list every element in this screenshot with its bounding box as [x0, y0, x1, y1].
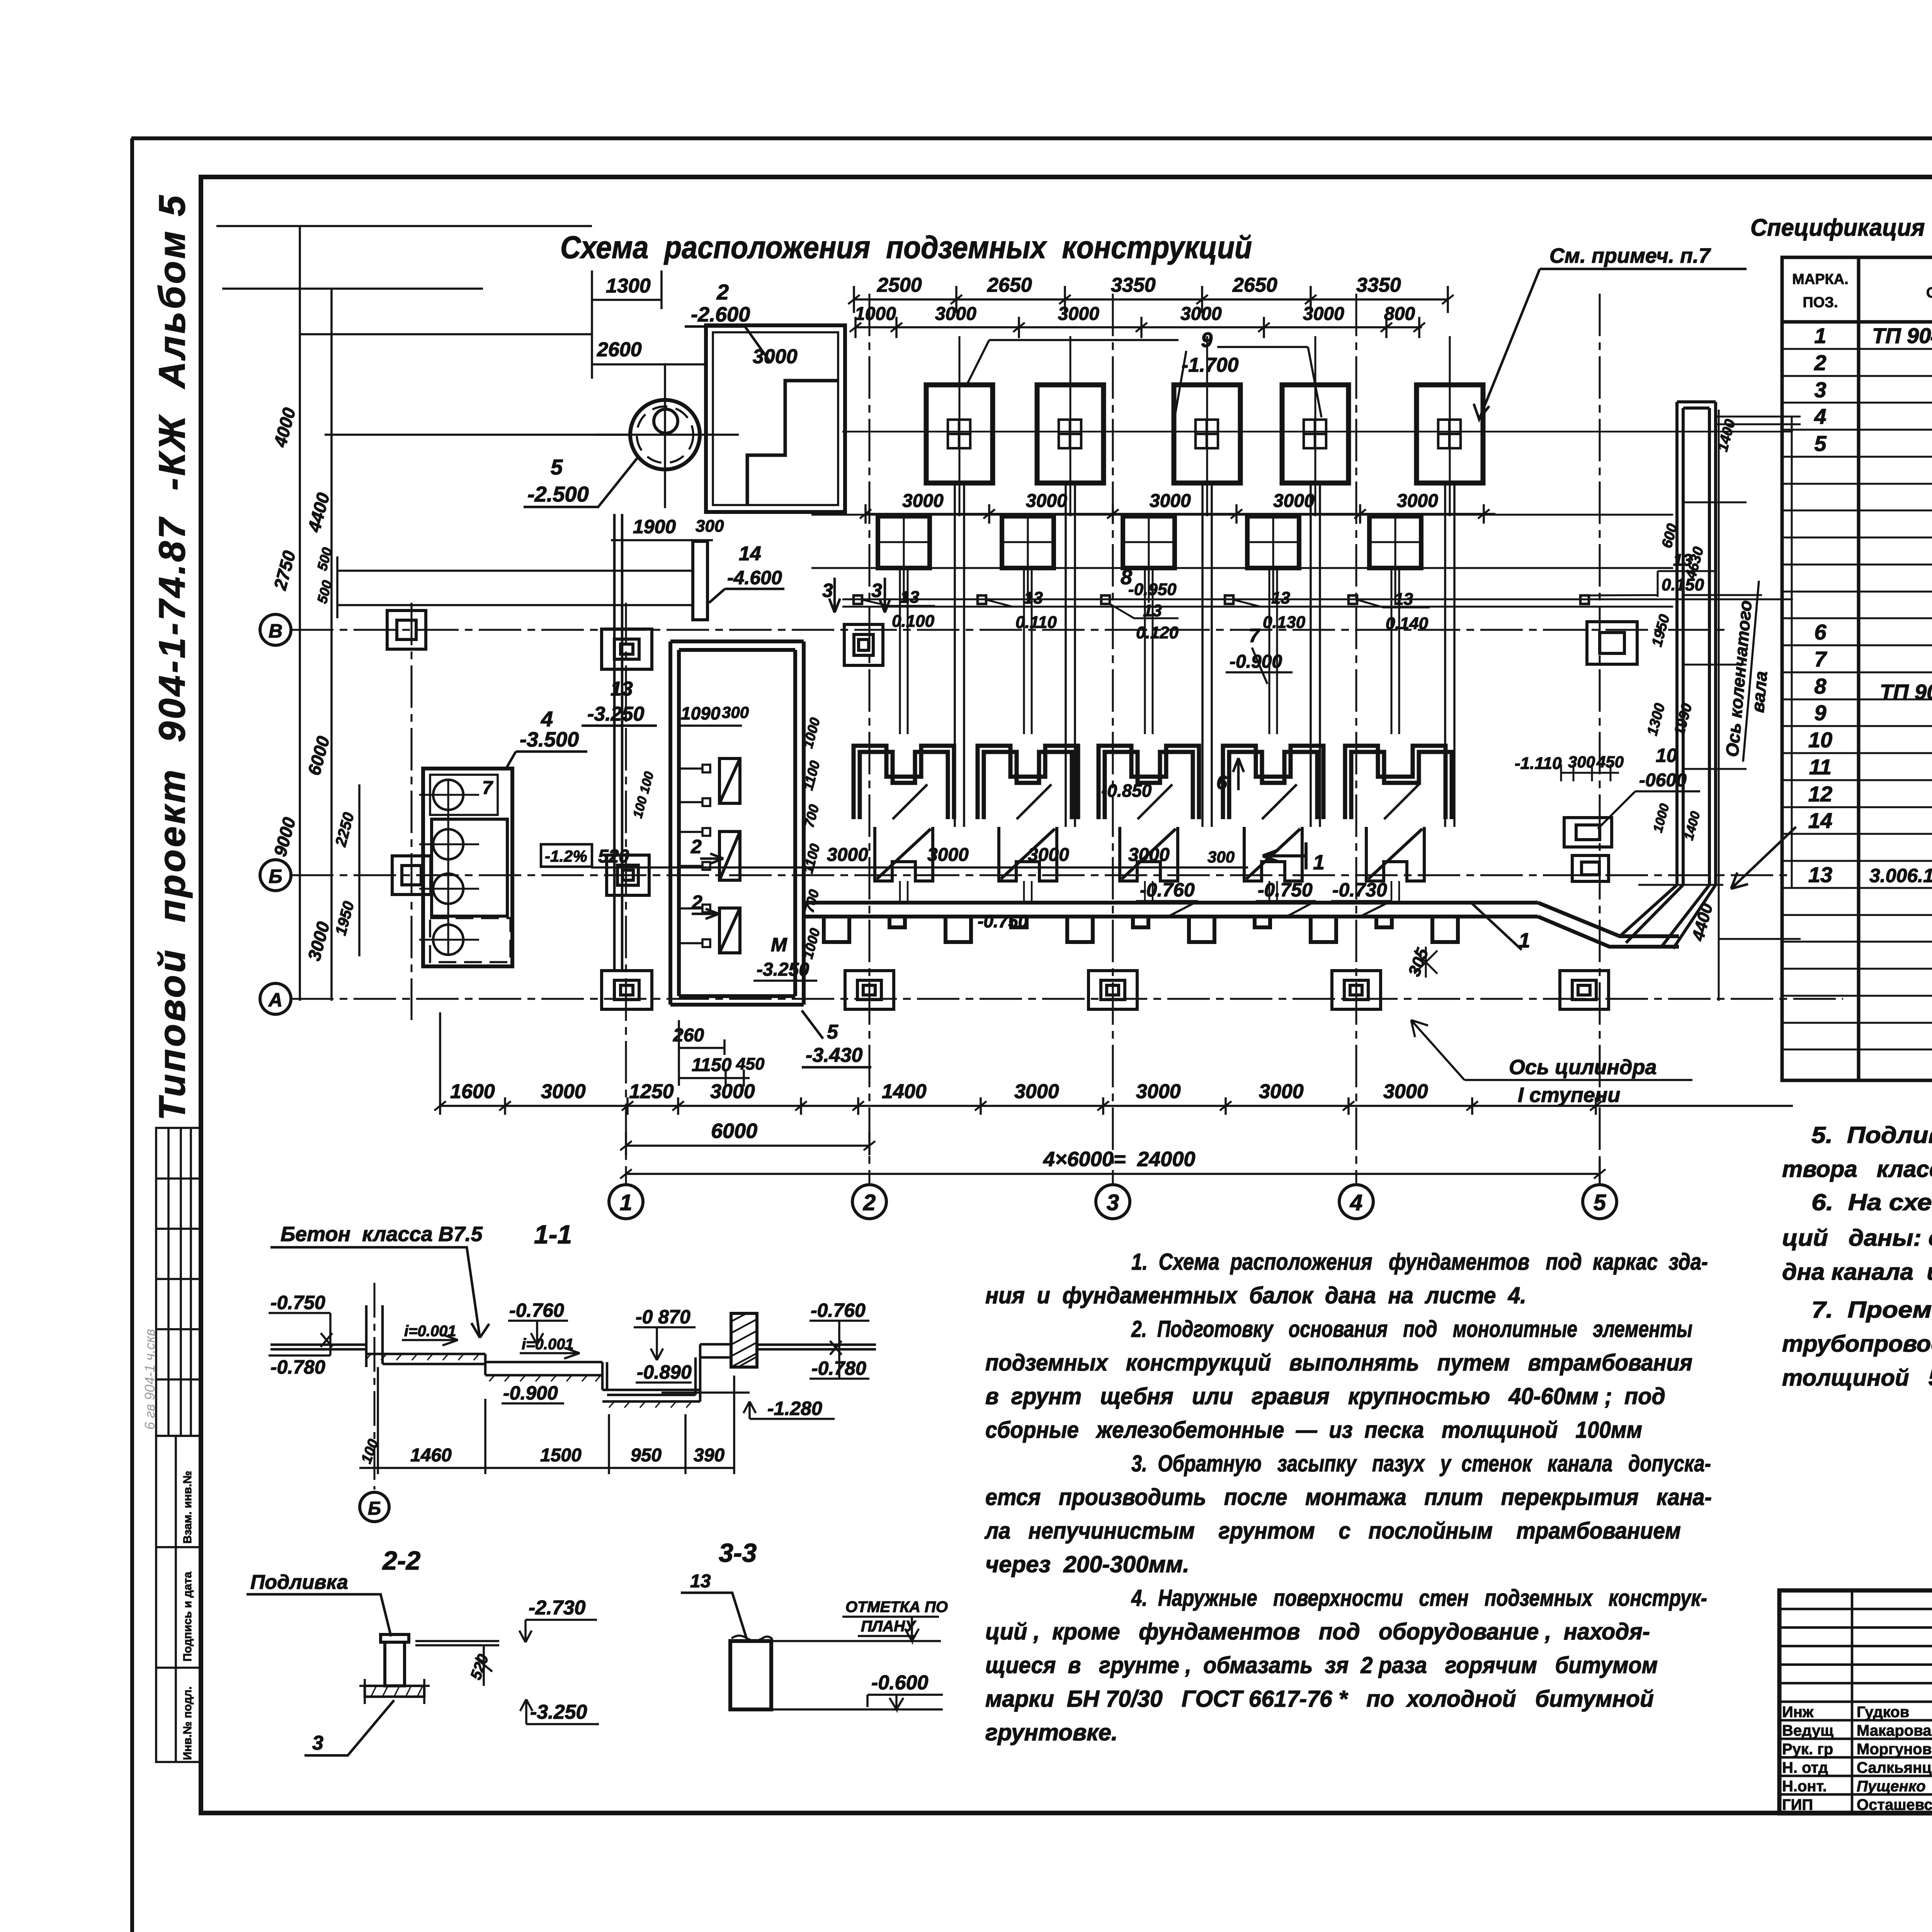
SECTION 2-2 — [247, 1546, 599, 1755]
SECTION 3-3 — [681, 1538, 948, 1709]
svg-text:-0.850: -0.850 — [1101, 781, 1152, 801]
row axis lines А Б В — [291, 603, 1843, 1020]
base plate hatched — [359, 1679, 430, 1704]
svg-text:5. Подливку выполнить из ц: 5. Подливку выполнить из цементнопесчано… — [1811, 1122, 1932, 1148]
section marks 2-2 — [690, 836, 723, 919]
svg-text:13: 13 — [1024, 588, 1043, 607]
svg-text:-0600: -0600 — [1639, 770, 1687, 791]
axis krank shaft label — [1721, 579, 1779, 764]
svg-text:300: 300 — [696, 517, 724, 536]
svg-text:ТП 904-1- -КЖ лист 8: ТП 904-1- -КЖ лист 8 — [1872, 323, 1932, 348]
svg-text:-3.250: -3.250 — [530, 1701, 587, 1723]
svg-text:3000: 3000 — [1397, 491, 1438, 511]
svg-text:4. Наружные поверхности с: 4. Наружные поверхности стен подземных к… — [1131, 1585, 1707, 1611]
top dim chain 2500/2650/3350/2650/3350 — [854, 286, 1448, 313]
PLAN — [216, 226, 1843, 1219]
kolodets K1 well — [595, 363, 739, 508]
machine foundation units — [854, 746, 1452, 819]
svg-text:в грунт щебня или грави: в грунт щебня или гравия крупностью 40-6… — [985, 1383, 1665, 1409]
svg-text:Б: Б — [368, 1498, 381, 1519]
svg-text:3.006.1-2/82 Вып.1-2: 3.006.1-2/82 Вып.1-2 — [1869, 865, 1932, 886]
svg-text:2: 2 — [863, 1190, 876, 1215]
canal KN1 main rectangle — [670, 641, 804, 1005]
top-left dims 1300 / 2600 — [325, 270, 707, 435]
svg-text:ций даны: отметки верха о: ций даны: отметки верха опорных подушек,… — [1782, 1225, 1932, 1251]
svg-text:3000: 3000 — [1303, 304, 1344, 324]
svg-text:1: 1 — [1519, 929, 1530, 952]
svg-text:3000: 3000 — [1058, 304, 1099, 324]
svg-text:-1.110: -1.110 — [1515, 754, 1562, 773]
svg-text:Моргунов: Моргунов — [1857, 1741, 1932, 1758]
small markers in canal — [679, 765, 710, 947]
label 9 / -1.700 — [966, 328, 1321, 417]
svg-text:2650: 2650 — [987, 274, 1032, 296]
five top foundation rectangles — [926, 385, 1483, 483]
svg-text:Рук. гр: Рук. гр — [1782, 1741, 1833, 1758]
arrow 6 — [1216, 758, 1244, 793]
svg-text:6: 6 — [1814, 620, 1827, 644]
svg-text:сборные железобетонные — и: сборные железобетонные — из песка толщин… — [985, 1417, 1642, 1443]
TITLE BLOCK — [1779, 1590, 1932, 1816]
svg-text:9: 9 — [1814, 701, 1826, 725]
svg-text:ОТМЕТКА ПО: ОТМЕТКА ПО — [845, 1599, 948, 1616]
svg-text:3000: 3000 — [1259, 1080, 1304, 1103]
pier 14 — [693, 541, 707, 620]
svg-text:Схема расположения подземных: Схема расположения подземных конструкций — [560, 230, 1252, 265]
footings on line В — [387, 611, 1637, 669]
axis bubbles В Б А — [260, 614, 291, 1014]
svg-text:грунтовке.: грунтовке. — [985, 1719, 1118, 1745]
pryamok PRm1 pit — [706, 325, 845, 512]
footings on line Б — [392, 855, 649, 895]
svg-text:Макарова: Макарова — [1857, 1722, 1932, 1739]
rotated dims right side — [1644, 418, 1738, 943]
svg-text:-2.600: -2.600 — [691, 303, 750, 326]
svg-text:-0.950: -0.950 — [1128, 580, 1177, 599]
svg-text:-0.760: -0.760 — [509, 1299, 564, 1321]
svg-text:3000: 3000 — [1180, 304, 1222, 324]
svg-text:5: 5 — [827, 1021, 838, 1043]
svg-text:1300: 1300 — [606, 275, 651, 297]
svg-text:3000: 3000 — [1014, 1080, 1059, 1103]
svg-text:1250: 1250 — [629, 1080, 674, 1103]
svg-text:7: 7 — [482, 778, 493, 798]
svg-text:3: 3 — [1814, 378, 1826, 402]
hatch ticks under slabs — [366, 1354, 692, 1408]
svg-text:ла непучинистым грунтом: ла непучинистым грунтом с послойным трам… — [984, 1518, 1681, 1544]
svg-text:7. Проем в фундаментах ФО: 7. Проем в фундаментах ФОм 4 после прокл… — [1811, 1297, 1932, 1323]
svg-text:1: 1 — [1313, 851, 1325, 874]
svg-text:1500: 1500 — [540, 1445, 582, 1466]
canal column 1 walls — [614, 514, 622, 970]
svg-text:Н. отд: Н. отд — [1782, 1759, 1828, 1776]
svg-text:950: 950 — [631, 1445, 662, 1466]
svg-text:3350: 3350 — [1111, 274, 1156, 296]
svg-text:Типовой проект 904-1-74.87: Типовой проект 904-1-74.87 -КЖ Альбом 5 — [151, 193, 193, 1121]
svg-text:Инж: Инж — [1782, 1704, 1814, 1721]
svg-text:4: 4 — [1350, 1190, 1362, 1215]
svg-text:13: 13 — [690, 1571, 711, 1592]
svg-text:0.100: 0.100 — [892, 612, 935, 631]
svg-text:Гудков: Гудков — [1857, 1704, 1909, 1721]
svg-text:3. Обратную засыпку пазух: 3. Обратную засыпку пазух у стенок канал… — [1131, 1451, 1711, 1476]
elevation labels above strip — [978, 781, 1387, 931]
svg-text:трубопроводов закрыть по м: трубопроводов закрыть по месту рифленой … — [1782, 1331, 1932, 1357]
svg-text:I ступени: I ступени — [1518, 1083, 1620, 1107]
svg-text:6. На схеме расположения по: 6. На схеме расположения подземных конст… — [1811, 1189, 1932, 1215]
svg-text:подземных конструкций выпо: подземных конструкций выполнять путем вт… — [985, 1350, 1692, 1376]
svg-text:3000: 3000 — [710, 1080, 755, 1103]
OP1 labels 13/0.1xx — [892, 551, 1704, 642]
svg-text:i=0.001: i=0.001 — [522, 1336, 574, 1353]
upper stamp grid — [156, 1128, 201, 1436]
label M / -3.250 — [753, 934, 817, 981]
slope box -1.2% 520 — [541, 844, 629, 867]
svg-text:щиеся в грунте , обмазать: щиеся в грунте , обмазать зя 2 раза горя… — [985, 1652, 1658, 1678]
svg-text:-0.780: -0.780 — [270, 1356, 325, 1378]
long horizontals through plan — [811, 515, 1793, 607]
svg-text:5: 5 — [1814, 431, 1827, 456]
svg-text:3350: 3350 — [1356, 274, 1401, 296]
svg-text:1. Схема расположения фунд: 1. Схема расположения фундаментов под ка… — [1131, 1249, 1708, 1275]
outer border left — [130, 138, 134, 1932]
svg-text:-3.430: -3.430 — [806, 1044, 863, 1066]
column axis lines 1-5 — [626, 294, 1600, 1184]
svg-text:800: 800 — [1384, 304, 1415, 324]
dimension line — [359, 1367, 734, 1474]
svg-text:3000: 3000 — [1028, 845, 1069, 865]
svg-text:-0.760: -0.760 — [811, 1299, 866, 1321]
hatched pier — [731, 1313, 757, 1367]
6000 dim — [626, 1132, 869, 1155]
svg-text:-4.600: -4.600 — [727, 567, 782, 588]
label 1 with leader — [1471, 903, 1530, 952]
svg-text:2500: 2500 — [877, 274, 922, 296]
cylinder axis label — [1411, 1020, 1692, 1107]
svg-text:8: 8 — [1814, 674, 1827, 698]
svg-text:А: А — [268, 989, 282, 1011]
svg-text:-1.2%: -1.2% — [545, 847, 587, 865]
svg-text:2: 2 — [691, 891, 702, 913]
label 2 / -2.600 — [685, 280, 770, 361]
svg-text:2: 2 — [1814, 350, 1826, 375]
hatched inner rects — [719, 759, 740, 953]
svg-text:Салкьянц: Салкьянц — [1857, 1759, 1932, 1776]
svg-text:-0.900: -0.900 — [503, 1382, 558, 1404]
inner frame — [201, 177, 1932, 1813]
second dim chain 1000/3000x4/800 — [855, 317, 1422, 338]
svg-text:3000: 3000 — [1136, 1080, 1181, 1103]
outer border top — [131, 136, 1932, 140]
OP1 support pads — [854, 595, 1589, 604]
svg-text:1900: 1900 — [633, 516, 676, 537]
svg-text:4: 4 — [541, 707, 553, 731]
svg-text:ОБОЗНАЧЕНИЕ: ОБОЗНАЧЕНИЕ — [1926, 285, 1932, 301]
dim 1090 300 — [679, 724, 742, 727]
svg-text:3000: 3000 — [1150, 491, 1191, 511]
label 5 / -3.430 — [802, 1010, 871, 1067]
rotated dim chain right of canal — [630, 716, 823, 961]
svg-text:3000: 3000 — [927, 845, 969, 865]
left dimension lines — [216, 226, 592, 1001]
svg-text:13: 13 — [1808, 862, 1832, 887]
svg-text:260: 260 — [673, 1025, 704, 1046]
svg-text:-2.500: -2.500 — [527, 482, 589, 506]
svg-text:7: 7 — [1814, 647, 1827, 671]
svg-text:3000: 3000 — [1026, 491, 1067, 511]
center axis verticals through top rectangles — [878, 336, 1450, 603]
lower stamp grid — [156, 1436, 201, 1762]
svg-text:-3.500: -3.500 — [520, 728, 579, 751]
svg-text:3: 3 — [312, 1732, 323, 1754]
svg-text:М: М — [771, 934, 787, 956]
svg-text:13: 13 — [611, 678, 633, 700]
svg-text:2650: 2650 — [1232, 274, 1277, 296]
svg-text:-0.750: -0.750 — [978, 911, 1028, 931]
svg-text:6: 6 — [1216, 772, 1228, 793]
svg-text:1000: 1000 — [855, 304, 896, 324]
svg-text:2. Подготовку основания п: 2. Подготовку основания под монолитные э… — [1131, 1316, 1692, 1342]
svg-text:2600: 2600 — [597, 338, 642, 361]
24000 dim — [626, 1159, 1600, 1184]
svg-text:-0 870: -0 870 — [636, 1306, 690, 1328]
svg-text:В: В — [269, 620, 282, 642]
RIGHT NOTES 5-7 — [1782, 1122, 1932, 1391]
rezervuar REm1 — [419, 769, 512, 966]
svg-text:Ведущ: Ведущ — [1782, 1722, 1833, 1739]
svg-text:13: 13 — [1394, 590, 1413, 609]
svg-text:марки БН 70/30 ГОСТ 6617-76: марки БН 70/30 ГОСТ 6617-76 * по холодно… — [985, 1686, 1654, 1712]
label 7 / -0.900 — [1226, 625, 1293, 684]
svg-text:-3.250: -3.250 — [757, 959, 809, 980]
svg-text:Спецификация к схеме распол: Спецификация к схеме расположения подзем… — [1750, 214, 1932, 241]
svg-text:ния и фундаментных балок д: ния и фундаментных балок дана на листе 4… — [985, 1282, 1526, 1308]
see note 7 label — [1474, 244, 1747, 419]
SPEC TABLE — [1782, 257, 1932, 1080]
svg-text:Подливка: Подливка — [250, 1571, 348, 1594]
section mark 1 arrow — [1263, 842, 1325, 874]
svg-text:0.120: 0.120 — [1136, 623, 1179, 642]
svg-text:14: 14 — [1808, 808, 1832, 833]
svg-text:Пущенко: Пущенко — [1857, 1778, 1926, 1795]
svg-text:Подпись и дата: Подпись и дата — [181, 1571, 194, 1662]
svg-text:3: 3 — [1107, 1190, 1119, 1215]
svg-text:3000: 3000 — [902, 491, 944, 511]
elevation flags — [270, 1292, 866, 1419]
svg-text:450: 450 — [736, 1054, 765, 1073]
svg-text:3000: 3000 — [541, 1080, 586, 1103]
svg-text:6 гв 904-1 ч.скв: 6 гв 904-1 ч.скв — [142, 1329, 158, 1430]
svg-text:ций , кроме фундаментов п: ций , кроме фундаментов под оборудование… — [985, 1619, 1650, 1645]
SECTION 1-1 — [269, 1220, 876, 1522]
svg-text:3000: 3000 — [935, 304, 976, 324]
bottom dim chain — [440, 1012, 1793, 1115]
svg-text:8: 8 — [1121, 566, 1132, 589]
svg-text:3000: 3000 — [1128, 845, 1170, 865]
svg-text:2: 2 — [716, 280, 729, 304]
svg-text:7: 7 — [1249, 625, 1260, 646]
svg-text:-0.600: -0.600 — [871, 1672, 929, 1694]
svg-text:-0.730: -0.730 — [1332, 879, 1387, 901]
toothed strip — [804, 903, 1679, 947]
svg-text:300: 300 — [1207, 848, 1235, 866]
svg-text:12: 12 — [1808, 782, 1832, 806]
MIDDLE NOTES 1-4 — [984, 1249, 1712, 1745]
svg-text:3: 3 — [822, 580, 833, 601]
svg-text:13: 13 — [1271, 588, 1290, 607]
svg-text:1460: 1460 — [410, 1445, 452, 1466]
pier — [381, 1634, 409, 1686]
svg-text:-2.730: -2.730 — [529, 1597, 586, 1619]
svg-text:14: 14 — [739, 543, 761, 565]
svg-text:3000: 3000 — [1383, 1080, 1428, 1103]
svg-text:11: 11 — [1809, 755, 1832, 779]
svg-text:13: 13 — [900, 588, 919, 607]
svg-text:ТП 904-1- -КЖ: ТП 904-1- -КЖ — [1880, 680, 1932, 704]
vertical dim 520 — [475, 1645, 492, 1686]
svg-text:ГИП: ГИП — [1782, 1796, 1813, 1813]
svg-text:-1.280: -1.280 — [767, 1398, 822, 1419]
svg-text:через 200-300мм.: через 200-300мм. — [985, 1551, 1189, 1577]
svg-text:Бетон класса В7.5: Бетон класса В7.5 — [281, 1223, 483, 1246]
footings on line А — [602, 971, 1609, 1009]
right channel — [1620, 402, 1716, 949]
svg-text:3000: 3000 — [827, 845, 868, 865]
svg-text:0.110: 0.110 — [1015, 613, 1057, 632]
mid 3000 dim row — [866, 504, 1495, 524]
svg-text:дна канала и отметки низа: дна канала и отметки низа остальных элем… — [1782, 1259, 1932, 1285]
svg-text:4×6000= 24000: 4×6000= 24000 — [1043, 1148, 1195, 1171]
svg-text:-0.760: -0.760 — [1140, 879, 1195, 901]
svg-text:-3.250: -3.250 — [587, 703, 645, 725]
svg-text:4: 4 — [1814, 404, 1826, 429]
svg-text:МАРКА.: МАРКА. — [1792, 271, 1849, 287]
svg-text:0.140: 0.140 — [1386, 614, 1429, 633]
floor lines — [415, 1641, 499, 1645]
block — [730, 1641, 771, 1709]
svg-text:10: 10 — [1656, 745, 1677, 766]
svg-text:ется производить после м: ется производить после монтажа плит пере… — [985, 1484, 1712, 1510]
svg-text:См. примеч. п.7: См. примеч. п.7 — [1549, 244, 1711, 267]
label 4 / -3.500 — [505, 707, 587, 770]
label 10 / -0.600 with footing — [1564, 745, 1700, 881]
svg-text:300: 300 — [722, 703, 749, 721]
svg-text:-0.890: -0.890 — [637, 1361, 692, 1383]
svg-text:1: 1 — [620, 1190, 632, 1215]
svg-text:-0.750: -0.750 — [1258, 879, 1313, 901]
section marks 3-3 — [822, 578, 890, 612]
axis bubbles 1-5 — [609, 1185, 1617, 1219]
svg-text:6000: 6000 — [711, 1119, 757, 1143]
svg-text:Н.онт.: Н.онт. — [1782, 1778, 1827, 1795]
svg-text:1-1: 1-1 — [534, 1220, 572, 1249]
svg-text:1: 1 — [1814, 323, 1826, 348]
svg-text:твора класса В15.: твора класса В15. — [1782, 1156, 1932, 1182]
middle row squares — [878, 516, 1421, 568]
svg-text:390: 390 — [694, 1445, 724, 1466]
svg-text:Ось цилиндра: Ось цилиндра — [1509, 1056, 1657, 1079]
svg-text:-0.750: -0.750 — [270, 1292, 325, 1313]
svg-text:2-2: 2-2 — [382, 1546, 420, 1575]
svg-text:1600: 1600 — [450, 1080, 495, 1103]
section body — [270, 1305, 876, 1401]
svg-text:Инв.№ подл.: Инв.№ подл. — [181, 1686, 194, 1760]
machine axis — [842, 431, 1793, 433]
diagonals on units — [893, 784, 1419, 819]
svg-text:5: 5 — [551, 455, 563, 479]
svg-text:3000: 3000 — [1273, 491, 1315, 511]
label 5 / -2.500 — [524, 455, 638, 507]
svg-text:Взам. инв.№: Взам. инв.№ — [181, 1471, 194, 1544]
svg-text:2: 2 — [690, 836, 702, 857]
svg-text:5: 5 — [1594, 1190, 1606, 1215]
svg-text:Осташевский: Осташевский — [1857, 1796, 1932, 1813]
label 13 / -3.250 — [582, 678, 657, 726]
svg-text:толщиной 5мм.: толщиной 5мм. — [1782, 1365, 1932, 1391]
verticals dropping from top rectangles — [955, 483, 1454, 827]
svg-text:3: 3 — [871, 580, 882, 601]
svg-text:3-3: 3-3 — [719, 1538, 757, 1568]
svg-text:1090: 1090 — [681, 703, 721, 723]
grid bubble Б — [360, 1492, 389, 1522]
3000 dim row at units — [591, 866, 1248, 869]
label 14 / -4.600 — [709, 543, 784, 603]
svg-text:-1.700: -1.700 — [1182, 354, 1239, 376]
svg-text:1400: 1400 — [882, 1080, 927, 1103]
svg-text:Б: Б — [269, 866, 282, 887]
svg-text:ПОЗ.: ПОЗ. — [1803, 294, 1838, 311]
LEFT MARGIN STAMPS — [142, 193, 201, 1762]
left rotated dims — [270, 405, 357, 963]
svg-text:10: 10 — [1808, 728, 1832, 752]
svg-text:0.130: 0.130 — [1263, 613, 1306, 632]
